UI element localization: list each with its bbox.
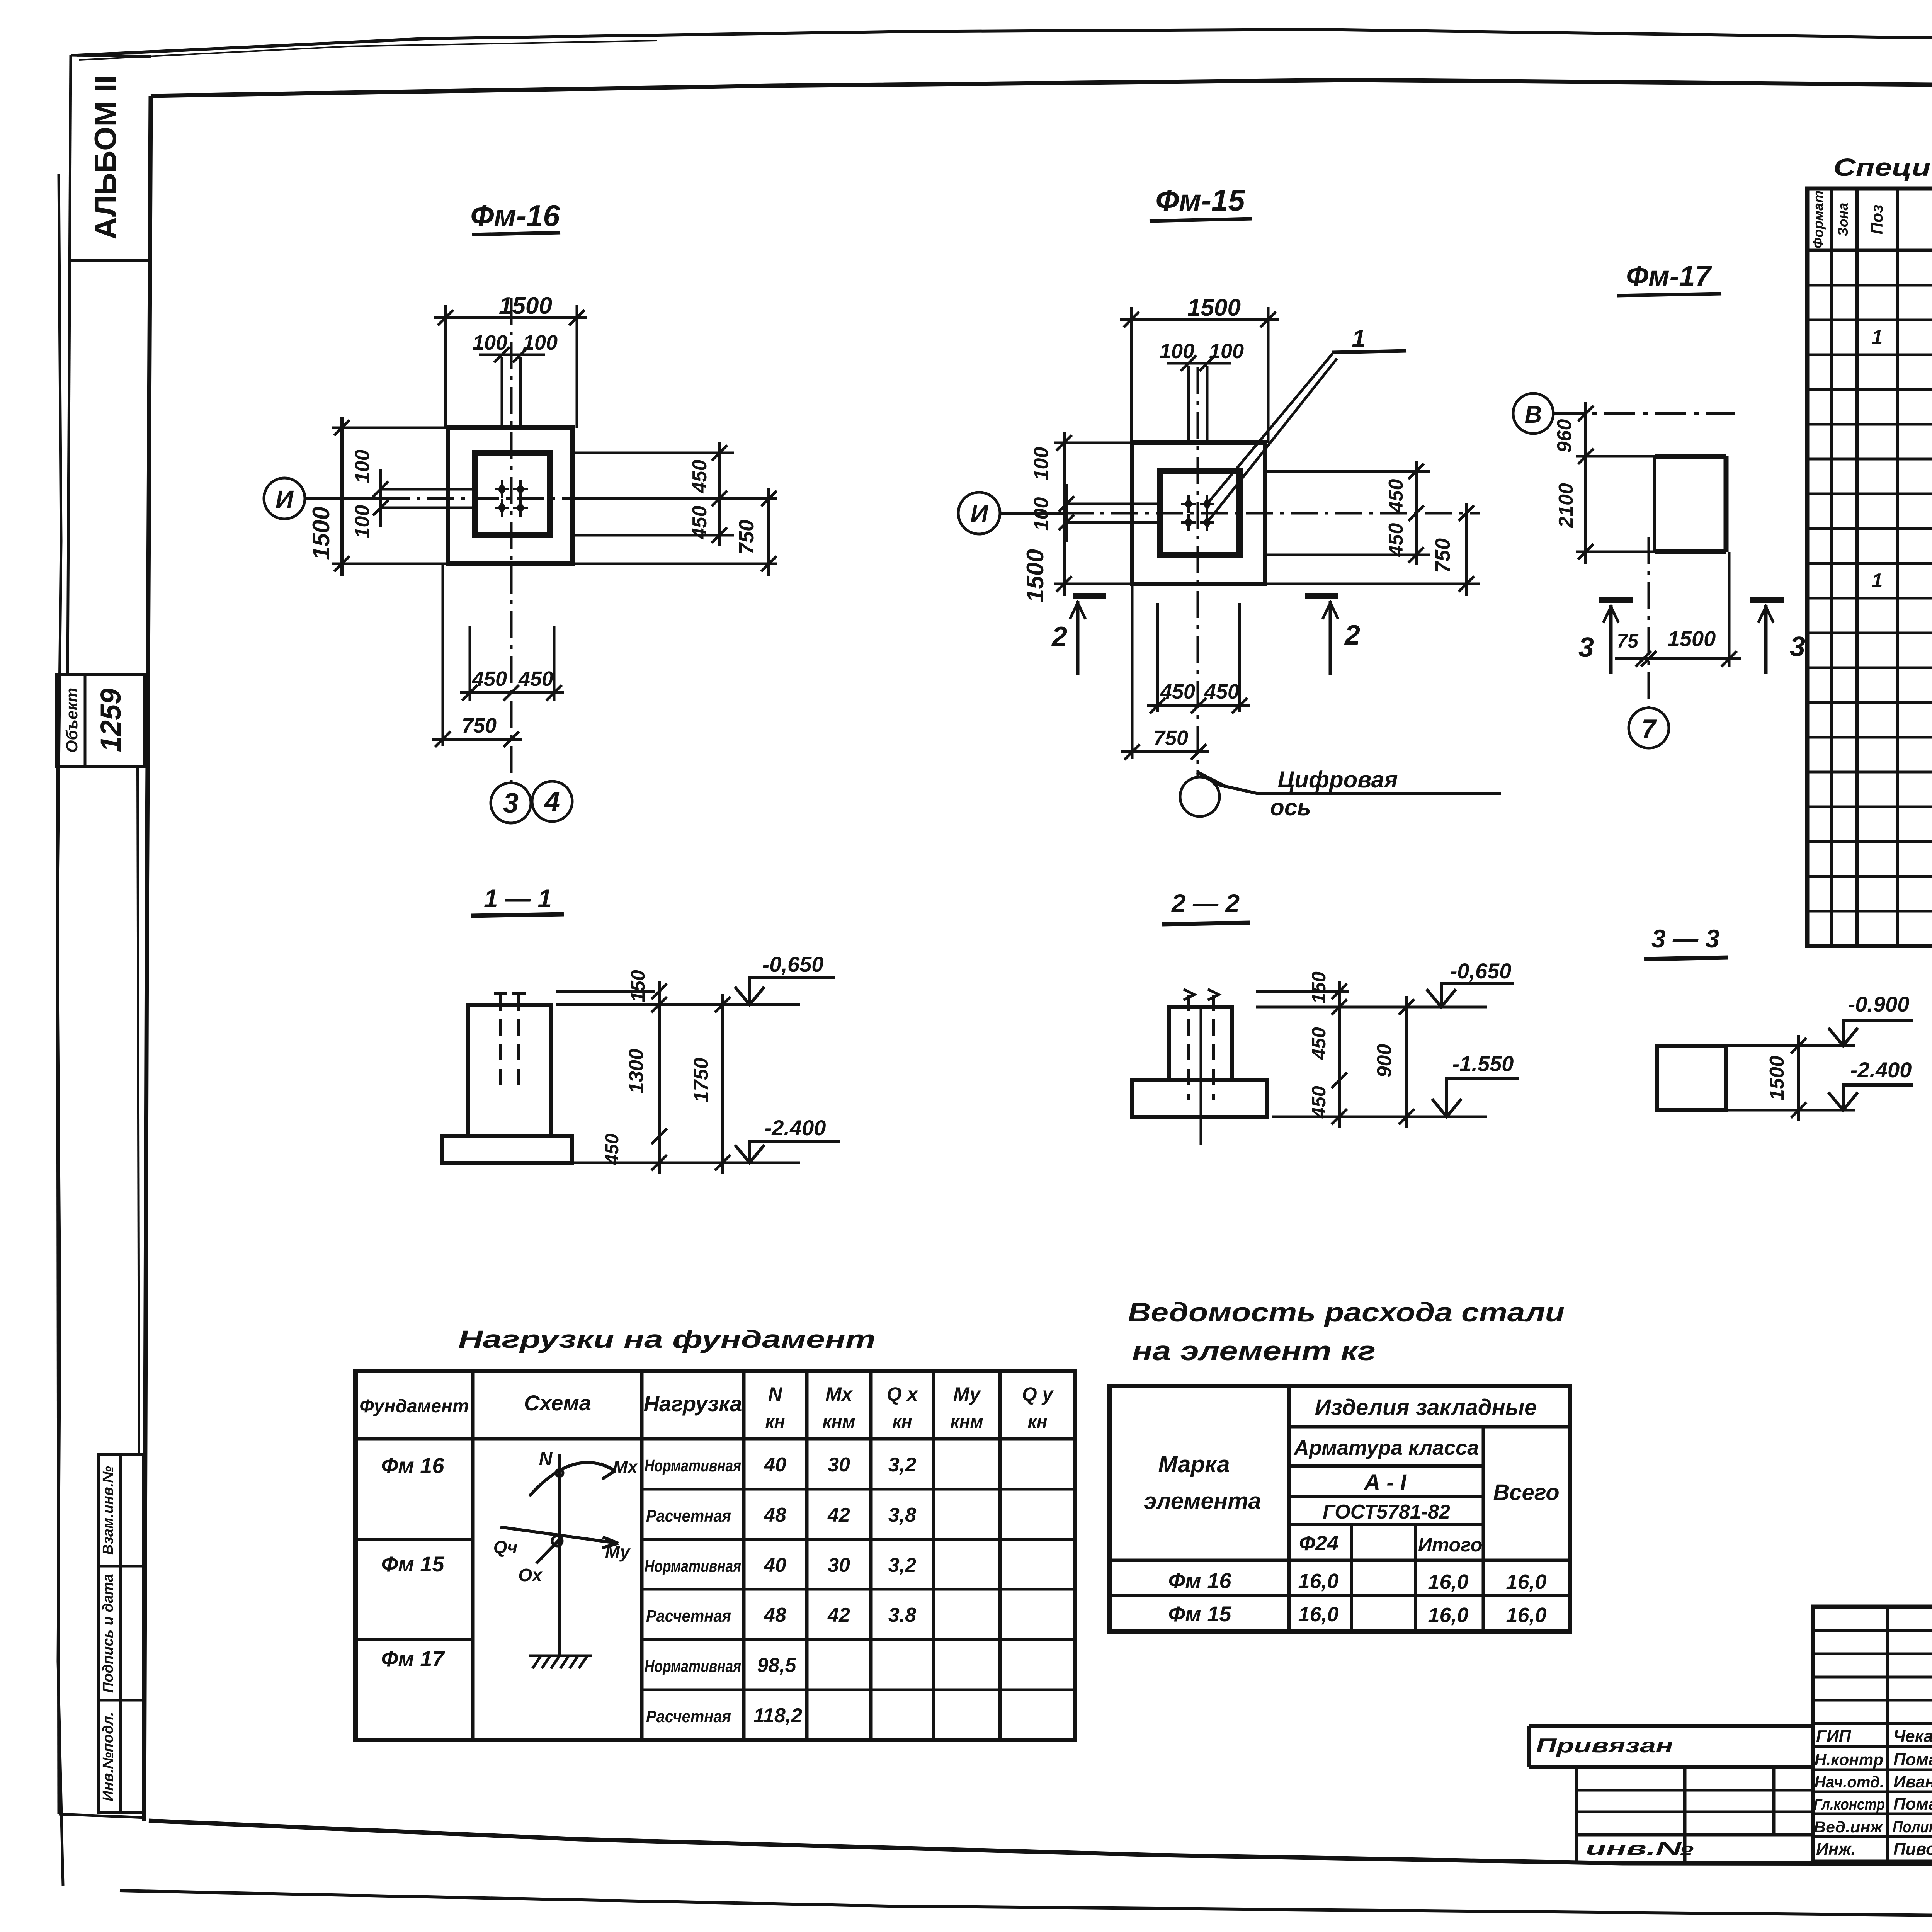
svg-text:960: 960 <box>1553 419 1576 453</box>
svg-text:Расчетная: Расчетная <box>646 1707 731 1726</box>
svg-text:кн: кн <box>765 1412 785 1432</box>
svg-text:1300: 1300 <box>625 1049 648 1094</box>
svg-text:Итого: Итого <box>1418 1534 1482 1556</box>
svg-text:450: 450 <box>1204 680 1239 703</box>
svg-text:42: 42 <box>827 1504 850 1526</box>
svg-text:Н.контр: Н.контр <box>1815 1750 1883 1769</box>
small grid below privyazan <box>1575 1767 1578 1862</box>
svg-text:Марка: Марка <box>1158 1451 1230 1477</box>
svg-text:16,0: 16,0 <box>1298 1570 1338 1593</box>
svg-text:450: 450 <box>1308 1086 1330 1119</box>
bolt projection lines top <box>1187 366 1190 443</box>
АЛЬБОМ II box <box>70 259 150 262</box>
svg-text:Нач.отд.: Нач.отд. <box>1815 1773 1884 1791</box>
svg-text:Пиворова: Пиворова <box>1893 1840 1932 1859</box>
svg-text:Нормативная: Нормативная <box>645 1456 741 1475</box>
svg-text:Привязан: Привязан <box>1536 1735 1673 1757</box>
svg-text:3.8: 3.8 <box>888 1604 916 1626</box>
svg-text:48: 48 <box>764 1504 786 1526</box>
svg-text:инв.№: инв.№ <box>1586 1838 1694 1859</box>
svg-text:Фм 15: Фм 15 <box>381 1552 445 1576</box>
Фм-15 vertical centerline <box>1197 367 1199 777</box>
svg-text:450: 450 <box>689 460 711 494</box>
svg-text:Фм-16: Фм-16 <box>470 199 560 233</box>
svg-text:1500: 1500 <box>1668 626 1716 651</box>
Фм-16 horizontal centerline <box>383 497 777 500</box>
svg-text:1: 1 <box>1352 325 1366 352</box>
svg-text:1 — 1: 1 — 1 <box>484 884 552 913</box>
svg-text:-0.900: -0.900 <box>1848 992 1910 1016</box>
svg-text:30: 30 <box>828 1454 850 1476</box>
level line -0.650 <box>1256 1006 1487 1009</box>
svg-text:Помазов: Помазов <box>1893 1750 1932 1769</box>
bolt projection lines top <box>501 357 503 428</box>
level line -1.550 <box>1272 1116 1487 1118</box>
svg-text:кнм: кнм <box>822 1412 855 1432</box>
svg-text:48: 48 <box>764 1604 786 1626</box>
svg-text:900: 900 <box>1373 1044 1396 1078</box>
svg-text:118,2: 118,2 <box>753 1704 802 1727</box>
svg-text:98,5: 98,5 <box>757 1654 796 1677</box>
svg-text:N: N <box>539 1449 553 1469</box>
anchor bolts dashed <box>499 995 502 1092</box>
svg-text:Нагрузки на фундамент: Нагрузки на фундамент <box>458 1325 876 1353</box>
right ext lines <box>573 452 734 454</box>
svg-text:Поликарпова: Поликарпова <box>1893 1818 1932 1836</box>
axis circle 7 <box>1629 708 1669 748</box>
svg-text:40: 40 <box>764 1554 786 1577</box>
dim line 150/1300/450 <box>658 981 661 1174</box>
svg-text:1750: 1750 <box>690 1058 713 1102</box>
svg-text:Нагрузка: Нагрузка <box>644 1391 742 1416</box>
column <box>1169 1007 1232 1080</box>
Фм-16 inner square <box>475 453 550 535</box>
svg-text:Фм 16: Фм 16 <box>1168 1568 1232 1593</box>
svg-text:3,8: 3,8 <box>888 1504 916 1526</box>
dim line 900 <box>1405 996 1408 1128</box>
svg-text:И: И <box>970 500 989 528</box>
svg-text:ГИП: ГИП <box>1816 1727 1852 1746</box>
svg-text:1500: 1500 <box>1766 1056 1788 1100</box>
bottom strip label boxes <box>99 1455 144 1812</box>
svg-text:Подпись и дата: Подпись и дата <box>100 1574 116 1693</box>
svg-text:-0,650: -0,650 <box>1450 959 1512 983</box>
right dim 750 <box>1465 503 1468 596</box>
svg-text:кн: кн <box>892 1412 912 1432</box>
svg-text:Ф24: Ф24 <box>1299 1532 1338 1555</box>
scan outer wavy top line <box>77 29 1932 55</box>
svg-text:Изделия закладные: Изделия закладные <box>1315 1395 1537 1420</box>
detail leader 1 <box>1207 354 1332 504</box>
svg-text:Mx: Mx <box>613 1457 638 1477</box>
svg-text:Поз: Поз <box>1868 204 1886 234</box>
svg-text:1: 1 <box>1872 326 1883 349</box>
svg-text:150: 150 <box>627 970 649 1002</box>
right dim 750 <box>767 488 770 576</box>
dim line 150/450/450 <box>1338 981 1341 1128</box>
svg-text:Расчетная: Расчетная <box>646 1607 731 1626</box>
axis circle 4 <box>532 781 572 821</box>
axis И circle <box>958 492 1000 534</box>
svg-text:А - I: А - I <box>1363 1470 1407 1495</box>
svg-text:1: 1 <box>1872 570 1883 592</box>
svg-text:-2.400: -2.400 <box>1850 1058 1912 1082</box>
В axis line <box>1553 412 1735 415</box>
svg-text:Фундамент: Фундамент <box>359 1396 469 1417</box>
svg-text:450: 450 <box>1385 523 1407 557</box>
svg-text:100: 100 <box>351 450 374 483</box>
svg-text:750: 750 <box>1431 538 1454 573</box>
svg-text:42: 42 <box>827 1604 850 1626</box>
scan bottom extra line <box>120 1891 1932 1920</box>
svg-text:100: 100 <box>351 505 374 539</box>
digital axis circle <box>1180 777 1219 816</box>
svg-text:ось: ось <box>1270 794 1311 820</box>
loads table grid <box>355 1371 1075 1740</box>
svg-text:Формат: Формат <box>1810 190 1826 248</box>
svg-text:Му: Му <box>605 1542 631 1562</box>
svg-text:Нормативная: Нормативная <box>645 1657 741 1676</box>
svg-text:Фм 15: Фм 15 <box>1168 1602 1232 1626</box>
svg-text:7: 7 <box>1641 714 1657 743</box>
svg-text:на элемент кг: на элемент кг <box>1132 1336 1376 1366</box>
svg-text:16,0: 16,0 <box>1428 1604 1468 1627</box>
pedestal <box>1132 1080 1267 1117</box>
svg-text:И: И <box>276 485 294 513</box>
svg-text:Чекалов: Чекалов <box>1893 1727 1932 1746</box>
axis И circle <box>264 478 305 519</box>
bolt top level line <box>1256 990 1349 993</box>
svg-text:Му: Му <box>953 1383 981 1405</box>
svg-text:-0,650: -0,650 <box>762 952 824 976</box>
svg-text:150: 150 <box>1308 971 1330 1004</box>
svg-text:Зона: Зона <box>1835 203 1851 236</box>
svg-text:450: 450 <box>518 667 553 690</box>
Фм-15 inner square <box>1160 471 1240 555</box>
digital axis leader <box>1197 772 1226 787</box>
svg-text:Взам.инв.№: Взам.инв.№ <box>100 1466 116 1555</box>
svg-text:1500: 1500 <box>499 293 552 319</box>
schema sketch <box>558 1454 561 1656</box>
svg-text:-1.550: -1.550 <box>1452 1051 1514 1076</box>
svg-text:Q у: Q у <box>1022 1383 1054 1405</box>
right dim 450 450 <box>1415 461 1418 565</box>
svg-text:3 — 3: 3 — 3 <box>1651 924 1719 953</box>
svg-text:Qч: Qч <box>493 1537 518 1557</box>
pedestal <box>442 1136 572 1163</box>
svg-text:100: 100 <box>1030 497 1053 531</box>
svg-text:Гл.констр: Гл.констр <box>1814 1796 1885 1813</box>
svg-text:3: 3 <box>1578 632 1594 663</box>
Объект 1259 box <box>56 674 145 766</box>
svg-text:100: 100 <box>473 331 507 354</box>
main drawing frame <box>151 80 1932 96</box>
column <box>468 1005 551 1136</box>
svg-text:16,0: 16,0 <box>1506 1604 1546 1627</box>
svg-text:75: 75 <box>1617 630 1639 652</box>
svg-text:450: 450 <box>1385 479 1407 513</box>
svg-text:3,2: 3,2 <box>888 1454 916 1476</box>
square <box>1657 1046 1726 1110</box>
axis circle 3 <box>491 783 531 823</box>
svg-text:3: 3 <box>1790 631 1805 662</box>
svg-text:Объект: Объект <box>63 688 81 753</box>
axis 7 line <box>1648 537 1650 708</box>
left strip border <box>68 55 71 674</box>
svg-text:Фм 16: Фм 16 <box>381 1453 445 1478</box>
svg-text:ГОСТ5781-82: ГОСТ5781-82 <box>1323 1501 1450 1523</box>
svg-text:АЛЬБОМ II: АЛЬБОМ II <box>88 75 122 239</box>
Фм-17 rectangle <box>1655 454 1726 459</box>
svg-text:Арматура класса: Арматура класса <box>1293 1436 1479 1459</box>
left dim 1500 <box>340 417 344 576</box>
svg-text:100: 100 <box>1160 340 1194 363</box>
svg-text:элемента: элемента <box>1144 1488 1261 1514</box>
svg-text:750: 750 <box>1153 726 1188 750</box>
svg-text:Фм 17: Фм 17 <box>381 1646 446 1671</box>
svg-text:16,0: 16,0 <box>1428 1570 1468 1594</box>
Фм-15 outer square <box>1132 443 1265 584</box>
svg-text:Фм-17: Фм-17 <box>1626 260 1712 292</box>
svg-text:В: В <box>1525 401 1542 428</box>
svg-text:1259: 1259 <box>95 689 127 752</box>
Фм-15 anchor bolts <box>1181 495 1196 513</box>
svg-text:2100: 2100 <box>1555 483 1577 528</box>
svg-text:Цифровая: Цифровая <box>1278 767 1398 793</box>
svg-text:Ведомость расхода стали: Ведомость расхода стали <box>1128 1297 1565 1327</box>
names table <box>1813 1607 1932 1862</box>
section mark 3 right <box>1750 597 1784 603</box>
svg-text:Инв.№подл.: Инв.№подл. <box>100 1712 116 1801</box>
svg-text:кн: кн <box>1027 1412 1047 1432</box>
svg-text:30: 30 <box>828 1554 850 1577</box>
left dim 960 / 2100 <box>1584 402 1587 564</box>
section mark 2 left <box>1073 593 1106 599</box>
svg-text:Всего: Всего <box>1493 1480 1559 1505</box>
svg-text:16,0: 16,0 <box>1506 1570 1546 1594</box>
axis В circle <box>1513 393 1553 434</box>
svg-text:Ох: Ох <box>518 1565 543 1585</box>
svg-text:16,0: 16,0 <box>1298 1603 1338 1626</box>
right dim 450 450 <box>718 442 721 546</box>
svg-text:Инж.: Инж. <box>1816 1840 1856 1859</box>
svg-text:-2.400: -2.400 <box>765 1116 826 1140</box>
left dim 1500 <box>1063 432 1066 596</box>
privyazan box <box>1529 1724 1813 1728</box>
svg-text:Иванов: Иванов <box>1893 1772 1932 1791</box>
svg-text:2: 2 <box>1051 621 1067 652</box>
svg-text:450: 450 <box>1308 1027 1330 1060</box>
svg-text:3,2: 3,2 <box>888 1554 916 1577</box>
svg-text:3: 3 <box>503 788 519 819</box>
Фм-16 anchor bolts <box>495 480 509 498</box>
bolt top level line <box>556 990 655 993</box>
svg-text:Mx: Mx <box>825 1383 853 1405</box>
scan left wavy line <box>57 174 63 1886</box>
svg-text:Фм-15: Фм-15 <box>1155 183 1245 217</box>
svg-text:100: 100 <box>1030 447 1053 481</box>
svg-text:N: N <box>768 1383 782 1405</box>
svg-text:1500: 1500 <box>1187 294 1241 321</box>
Фм-16 vertical centerline <box>510 298 513 783</box>
bottom ext lines <box>1131 584 1134 759</box>
svg-text:Схема: Схема <box>524 1391 591 1415</box>
svg-text:450: 450 <box>689 506 711 540</box>
svg-text:750: 750 <box>462 714 497 737</box>
svg-text:Расчетная: Расчетная <box>646 1507 731 1526</box>
right ext lines <box>1265 470 1430 473</box>
svg-text:2 — 2: 2 — 2 <box>1171 889 1240 917</box>
svg-text:100: 100 <box>1209 340 1244 363</box>
svg-text:Помазов: Помазов <box>1893 1794 1932 1813</box>
anchor bolts dashed <box>1187 995 1190 1100</box>
svg-text:2: 2 <box>1344 620 1360 651</box>
svg-text:кнм: кнм <box>950 1412 983 1432</box>
svg-text:Вед.инж: Вед.инж <box>1814 1819 1884 1836</box>
center axis <box>1200 1007 1202 1145</box>
section mark 2 right <box>1305 593 1338 599</box>
spec table grid <box>1807 189 1932 946</box>
level line -0.650 <box>556 1003 800 1006</box>
svg-text:4: 4 <box>544 786 560 817</box>
svg-text:450: 450 <box>602 1134 622 1165</box>
svg-text:40: 40 <box>764 1454 786 1476</box>
dim line 1750 <box>721 994 724 1174</box>
svg-text:Q x: Q x <box>887 1383 919 1405</box>
svg-text:1500: 1500 <box>308 507 335 560</box>
Фм-15 horizontal centerline <box>1066 512 1480 515</box>
dim 1500 <box>1797 1035 1800 1121</box>
section mark 3 left <box>1599 597 1633 603</box>
level line -2.400 <box>572 1162 800 1164</box>
bottom ext lines <box>442 564 444 746</box>
Фм-16 outer square <box>448 428 573 564</box>
svg-text:1500: 1500 <box>1022 549 1049 602</box>
svg-text:Нормативная: Нормативная <box>645 1557 741 1576</box>
svg-text:Спецификация фундаментов Фм-15: Спецификация фундаментов Фм-15,Фм-16,Фм-… <box>1833 153 1932 181</box>
ext level lines <box>1726 1044 1855 1047</box>
steel table grid <box>1110 1386 1570 1631</box>
svg-text:750: 750 <box>735 520 758 554</box>
svg-text:100: 100 <box>523 331 558 354</box>
